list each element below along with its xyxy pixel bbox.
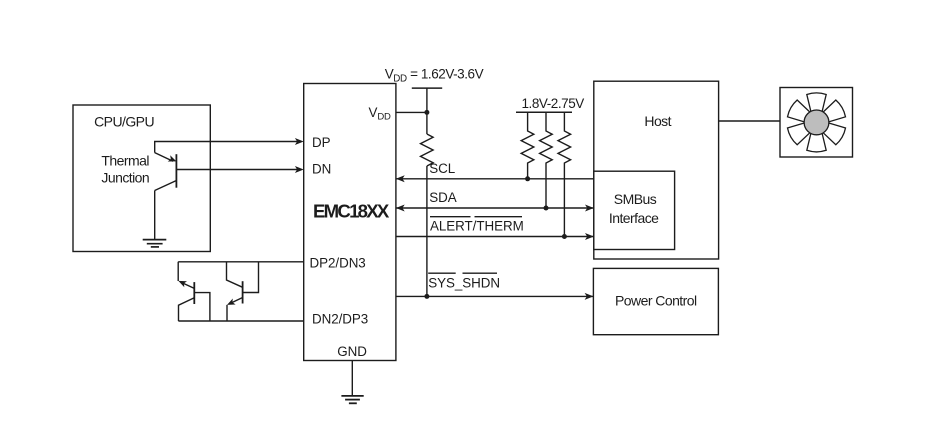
Q1 emitter arrow [168,155,177,161]
svg-text:Power Control: Power Control [615,292,697,308]
transistor Q1 thermal junction (PNP) [155,153,177,191]
svg-text:VDD = 1.62V-3.6V: VDD = 1.62V-3.6V [385,67,484,85]
svg-text:DP2/DN3: DP2/DN3 [310,256,366,271]
overline SYS [428,272,456,274]
svg-text:DN2/DP3: DN2/DP3 [312,311,368,326]
SMBus Interface block [594,171,675,249]
resistor R4 (ALERT pull-up) [558,112,571,236]
svg-text:SMBus: SMBus [614,191,657,207]
ground (CPU thermal junction) [143,240,167,247]
VDD power rail bar [412,87,442,89]
transistor Q3 (right of diode pair) [227,262,259,321]
wire DP (Q1 emitter to chip) [155,142,300,153]
wire chip GND to ground [351,361,353,396]
resistor R2 (SCL pull-up) [521,112,534,179]
wire VDD pin to rail [396,111,427,113]
Host block [594,81,719,259]
wire R1 to SYS_SHDN [426,166,428,296]
resistor R3 (SDA pull-up) [540,112,553,208]
Power Control block [593,268,718,334]
ground (chip GND) [341,396,363,403]
resistor R1 (VDD pull-up) [421,134,434,166]
CPU/GPU block [73,105,210,252]
junction dot R1/SYS_SHDN [424,294,429,299]
junction dot VDD pin [424,110,429,115]
wire SCL net [396,178,594,180]
junction dot R4/ALERT [562,234,567,239]
svg-text:CPU/GPU: CPU/GPU [94,114,154,130]
svg-text:DP: DP [312,135,331,150]
transistor Q2 (left of diode pair) [178,262,210,321]
Q3 emitter arrow [227,299,236,305]
svg-text:GND: GND [337,344,367,359]
wire DP2/DN3 net [178,261,304,263]
svg-text:SYS_SHDN: SYS_SHDN [428,275,500,290]
wire ALERT/THERM net [396,236,594,238]
EMC18XX chip U1 [304,84,396,361]
wire SYS_SHDN net [396,295,594,297]
wire DN (Q1 base to chip) [176,169,300,171]
svg-text:DN: DN [312,161,331,176]
junction dot R3/SDA [544,206,549,211]
overline THERM [475,216,523,218]
svg-text:SDA: SDA [429,190,457,205]
svg-text:Junction: Junction [101,169,149,185]
junction dot R2/SCL [525,176,530,181]
svg-text:VDD: VDD [369,105,392,123]
svg-text:1.8V-2.75V: 1.8V-2.75V [522,96,585,111]
fan hub [804,110,829,135]
fan blades [786,93,847,152]
svg-text:ALERT/THERM: ALERT/THERM [430,219,524,234]
wire DN2/DP3 net [178,320,303,322]
svg-text:SCL: SCL [429,161,455,176]
1.8V power rail bar [516,111,572,113]
wire Q1 collector to ground [154,191,156,240]
overline SHDN [463,272,498,274]
wire SDA net [396,207,594,209]
wire Host to fan [719,120,780,122]
fan enclosure [780,88,853,158]
wire VDD rail down [426,88,428,134]
overline ALERT [430,216,471,218]
svg-text:Interface: Interface [609,210,659,226]
svg-text:Thermal: Thermal [101,152,149,168]
Q2 emitter arrow [178,281,187,287]
svg-text:Host: Host [644,113,671,129]
svg-text:EMC18XX: EMC18XX [313,200,390,221]
